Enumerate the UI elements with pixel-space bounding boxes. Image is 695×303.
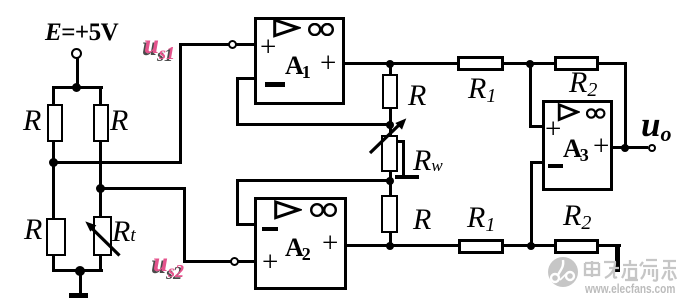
wire R2 feedback vertical: [624, 62, 627, 149]
resistor R (bridge upper-right): [93, 104, 109, 142]
op-amp A1 minus input: [265, 82, 285, 87]
op-amp A3 output plus: [593, 132, 609, 161]
ground: [69, 293, 88, 299]
op-amp A2: [254, 197, 347, 290]
terminal us1: [228, 40, 237, 49]
resistor R (bridge upper-left): [47, 104, 63, 142]
wire R2 top right: [599, 62, 627, 65]
op-amp A1 output plus: [320, 49, 336, 78]
op-amp A3 minus input: [548, 164, 563, 168]
label us2: [153, 249, 184, 280]
wire to A3 plus input: [529, 125, 543, 128]
wire ground stub: [79, 270, 82, 293]
wire us1 horizontal from bridge: [52, 161, 182, 164]
node A2 output to R: [386, 242, 394, 250]
label R1 top: [468, 74, 496, 106]
label E=+5V: [45, 19, 118, 47]
Rw wiper tick: [398, 140, 406, 143]
wire bottom R1 to R2: [504, 244, 555, 247]
op-amp A1 triangle symbol: [272, 18, 301, 39]
watermark chinese text: [583, 258, 678, 282]
wire bridge bottom horizontal: [52, 269, 103, 272]
op-amp A2 minus input: [262, 227, 278, 231]
watermark url text: [585, 281, 675, 296]
label R upper-left: [23, 106, 41, 136]
wire A2 feedback horizontal: [236, 179, 390, 182]
resistor R2 (bottom): [554, 239, 599, 254]
op-amp A2 infinity: [310, 203, 338, 217]
resistor R (bottom middle): [381, 195, 398, 233]
wire R to Rw: [389, 109, 392, 135]
wire R2 bottom right: [599, 244, 621, 247]
wire lower R to A2 output wire: [389, 233, 392, 247]
wire us2 terminal to A2: [238, 260, 254, 263]
wire A3 output: [613, 146, 648, 149]
node Rw bottom to A2 feedback: [386, 177, 394, 185]
wire us2 vertical drop: [183, 187, 186, 263]
resistor R1 (bottom): [458, 239, 504, 254]
label R top-middle: [408, 81, 426, 111]
node bridge bottom junction: [75, 266, 85, 276]
op-amp A2 output plus: [322, 229, 338, 258]
wire left branch upper: [52, 86, 55, 106]
resistor R1 (top): [457, 56, 505, 72]
wire Rw to lower R: [389, 172, 392, 195]
op-amp A3: [542, 100, 613, 191]
potentiometer Rw box: [381, 135, 398, 172]
resistor R (top middle): [382, 74, 398, 110]
label R2 top: [569, 68, 597, 100]
resistor R (bridge lower-left): [46, 218, 66, 256]
wire into R top-mid: [389, 64, 392, 74]
wire A1 output: [345, 62, 457, 65]
wire us1 top horizontal: [179, 43, 230, 46]
node us2 tap: [96, 184, 105, 193]
wire us2 bottom horizontal: [183, 260, 231, 263]
terminal us2: [230, 257, 239, 266]
node us1 tap: [49, 158, 58, 167]
op-amp A2 plus input: [262, 248, 278, 277]
op-amp A2 triangle symbol: [273, 200, 302, 221]
label R1 bottom: [467, 203, 495, 235]
wire A1 feedback stub: [236, 77, 255, 80]
op-amp A3 triangle symbol: [557, 103, 580, 122]
wire junction down to A3 plus: [529, 62, 532, 128]
wire junction up to A3 minus: [530, 161, 533, 248]
label Rw: [413, 146, 443, 176]
arrow through Rw: [364, 113, 412, 159]
label A3: [563, 136, 589, 165]
label uo: [641, 107, 671, 145]
wire R2 bottom drop: [615, 244, 620, 272]
wire A2 output: [347, 244, 458, 247]
wire R1 to R2 top: [504, 62, 554, 65]
terminal uo: [648, 144, 656, 152]
resistor Rt (thermistor, bridge lower-right): [93, 216, 112, 256]
label R bottom-middle: [413, 205, 431, 235]
wire A1 feedback horizontal: [236, 123, 393, 126]
label A2: [285, 235, 311, 264]
op-amp A3 plus input: [545, 115, 561, 144]
label R upper-right: [110, 106, 128, 136]
op-amp A1: [254, 17, 345, 105]
wire right branch upper: [99, 86, 102, 106]
node feedback A1 to Rw top: [386, 121, 394, 129]
terminal E (supply): [71, 48, 82, 59]
node A1 output to R: [386, 60, 394, 68]
wire left branch lower: [52, 255, 55, 272]
wire us1 terminal to A1: [236, 43, 254, 46]
label R2 bottom: [563, 201, 591, 233]
node A3 output junction: [621, 144, 629, 152]
wire bridge top horizontal: [52, 86, 103, 89]
label A1: [285, 53, 311, 82]
watermark logo circle: [546, 255, 582, 291]
resistor R2 (top): [554, 56, 599, 72]
wire right branch middle: [99, 142, 102, 217]
label us1: [144, 31, 175, 62]
wire right branch lower: [99, 255, 102, 272]
wire A1 feedback vertical: [236, 77, 239, 127]
wire A2 feedback stub: [236, 223, 254, 226]
node top R1-R2 junction: [526, 60, 534, 68]
node bridge top junction: [72, 83, 81, 92]
wire A2 feedback vertical: [236, 179, 239, 226]
wire to A3 minus input: [530, 161, 542, 164]
wire E terminal to bridge top: [76, 58, 79, 87]
wire us2 horizontal from bridge: [99, 187, 186, 190]
Rw wiper bottom bar: [395, 175, 419, 179]
op-amp A3 infinity: [586, 107, 606, 120]
label R lower-left: [24, 215, 42, 245]
Rw wiper vertical: [402, 140, 405, 177]
wire left branch middle: [52, 142, 55, 218]
arrow through Rt: [70, 214, 124, 260]
wire us1 vertical riser: [179, 43, 182, 163]
node bottom R1-R2 junction: [527, 242, 535, 250]
op-amp A1 infinity: [308, 23, 334, 36]
label Rt: [112, 217, 136, 247]
op-amp A1 plus input: [260, 33, 276, 62]
